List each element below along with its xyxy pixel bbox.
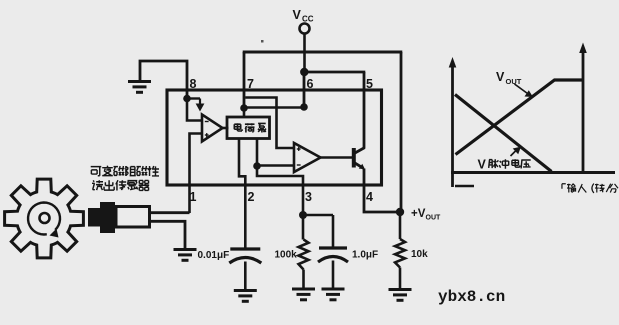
svg-text:7: 7 [247,77,254,91]
capacitor C1 0.01uF [230,247,260,250]
ground (R2) [389,288,412,291]
hysteresis arrow at input [187,97,200,99]
node Vcc junction [300,68,308,76]
svg-text:2: 2 [248,190,255,204]
transistor Q1 [352,148,356,168]
resistor R1 100k [302,215,305,240]
Vcc terminal [300,24,310,34]
wire Vcc down [303,34,306,73]
svg-text:V: V [478,158,487,172]
wire op-amp1 out to charge pump [221,127,229,130]
leader to pulse curve [511,150,517,156]
node pin8 junction [183,95,191,103]
node pin6 junction [300,103,308,111]
ground (R1) [292,288,315,291]
wire top rail (pin7 to right rail) [243,51,403,54]
sensor flange [100,202,115,233]
wire pin8 node to op-amp1 + input [187,99,202,121]
svg-text:5: 5 [366,77,373,91]
charge pump box [227,117,270,139]
svg-text:6: 6 [307,77,314,91]
svg-text:8: 8 [190,77,197,91]
svg-text:ybx8.cn: ybx8.cn [438,288,505,306]
sensor label line2 读出传感器 [92,180,103,190]
svg-text:OUT: OUT [426,215,442,222]
wire op-amp1 - input to pin1 [190,134,203,214]
wire pin3 node to C2 [303,214,333,217]
wire pin7 drop from top rail [243,52,246,109]
gear wheel [5,179,84,258]
sensor pole piece [88,208,101,227]
svg-text:V: V [293,8,302,22]
wire charge pump out B [256,139,259,167]
ground (C2) [322,288,345,291]
svg-text:OUT: OUT [506,77,522,86]
wire sensor return to ground [149,221,185,249]
wire pin7 node to pin6 node [244,106,304,109]
graph baseline [451,171,615,174]
wire charge pump out A to pin2 [239,139,245,250]
graph right axis [582,50,585,172]
svg-text:3: 3 [305,190,312,204]
IC box U1 [167,90,382,185]
svg-text:V: V [496,70,505,84]
wire right rail down to +Vout [400,52,403,212]
wire pin7 branch to op-amp2 + input [245,98,294,149]
wire node B to op-amp2 - input [257,164,294,167]
resistor R2 10k [399,212,402,239]
node pin7 junction [240,104,248,112]
svg-text:CC: CC [302,15,314,24]
svg-text:1.0μF: 1.0μF [352,250,378,261]
svg-text:+V: +V [411,208,426,220]
wire pin6 vertical [303,72,306,107]
capacitor C2 1.0uF [332,215,335,248]
graph foot tick [455,185,474,188]
wire op-amp2 out to Q1 base [320,156,353,159]
curve pulse falling [455,95,552,172]
wire Q1 emitter to pin4 / +Vout [364,169,400,213]
wire sensor signal to pin1 [149,211,190,214]
sensor label line1 可变磁阻磁性 [91,167,102,176]
ground (pin 8) [128,80,151,83]
graph left axis [451,64,454,187]
wire node B to pin3 [257,166,303,215]
op-amp U1A [202,115,223,142]
charge pump label 电荷泵 [234,123,242,131]
leader to Vout curve [515,84,528,94]
ground (sensor) [174,248,197,251]
gear hub [40,213,50,223]
wire pin5 vertical to Q1 collector [363,72,366,148]
svg-text:0.01μF: 0.01μF [198,250,230,261]
speck [261,40,264,43]
curve Vout rising [456,80,585,155]
sensor body [116,207,150,228]
svg-text:4: 4 [366,190,373,204]
svg-text:10k: 10k [411,249,428,260]
wire pin7 node to charge pump top [243,108,246,118]
wire Vcc junction to pin5 [304,71,365,74]
ground (C1) [234,289,257,292]
node +Vout [396,208,404,216]
gear rotation arrow [28,203,60,235]
wire pin8 ground link [140,61,187,99]
node charge pump out B [253,162,261,170]
op-amp U1B [294,143,321,172]
node pin3 junction [299,211,307,219]
x axis label 输入(转/分) [562,184,566,189]
svg-text:100k: 100k [275,250,298,261]
